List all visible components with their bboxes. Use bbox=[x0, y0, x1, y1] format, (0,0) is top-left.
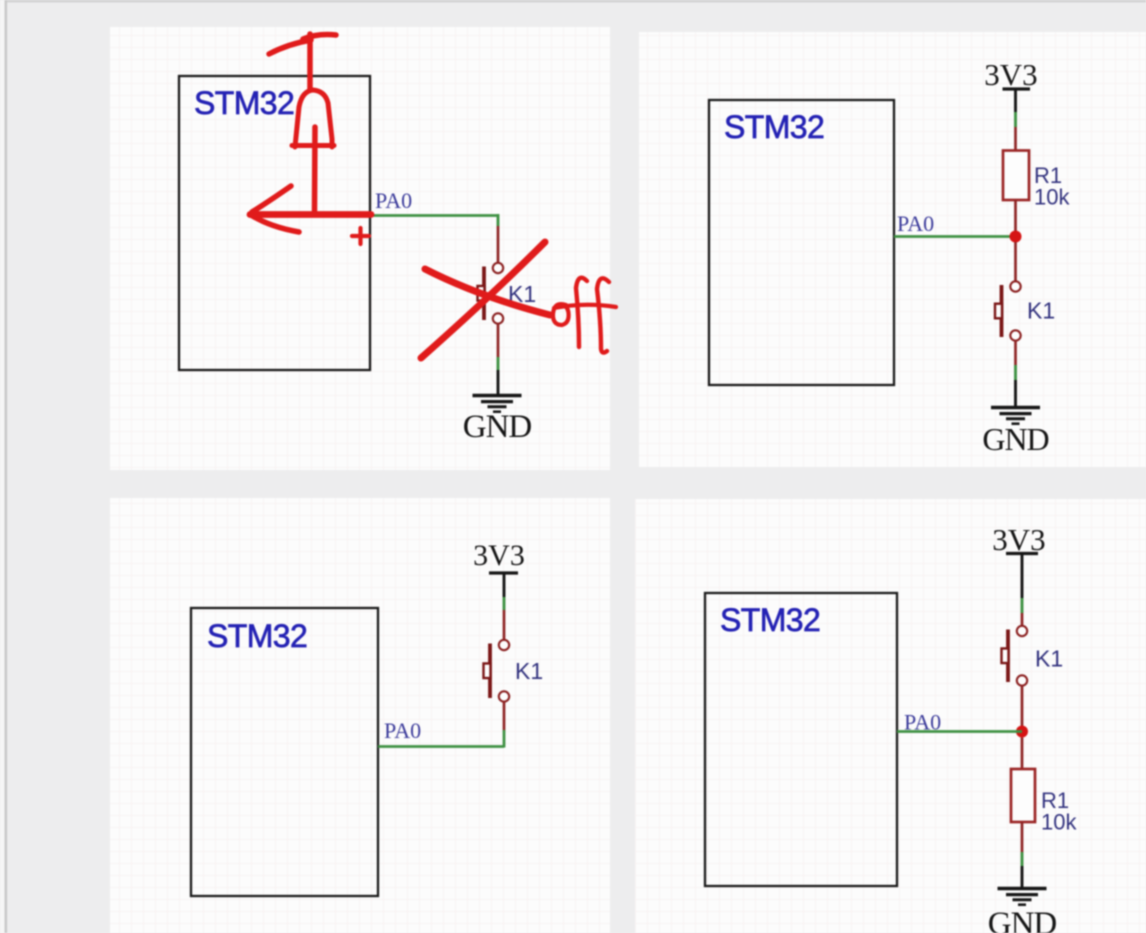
svg-text:STM32: STM32 bbox=[724, 109, 824, 145]
svg-text:3V3: 3V3 bbox=[992, 522, 1045, 557]
svg-text:3V3: 3V3 bbox=[473, 539, 525, 572]
svg-text:STM32: STM32 bbox=[207, 618, 307, 654]
svg-text:10k: 10k bbox=[1041, 810, 1077, 835]
svg-text:PA0: PA0 bbox=[384, 718, 421, 743]
svg-text:K1: K1 bbox=[515, 658, 543, 684]
svg-text:PA0: PA0 bbox=[897, 211, 934, 236]
svg-text:3V3: 3V3 bbox=[984, 57, 1037, 92]
svg-text:PA0: PA0 bbox=[375, 188, 412, 213]
svg-text:GND: GND bbox=[463, 409, 532, 445]
svg-text:K1: K1 bbox=[1027, 298, 1055, 324]
svg-text:GND: GND bbox=[982, 421, 1048, 457]
svg-text:10k: 10k bbox=[1034, 185, 1070, 210]
svg-text:STM32: STM32 bbox=[720, 602, 820, 638]
svg-text:K1: K1 bbox=[1035, 646, 1063, 672]
svg-text:GND: GND bbox=[988, 906, 1057, 933]
svg-text:STM32: STM32 bbox=[194, 85, 294, 121]
